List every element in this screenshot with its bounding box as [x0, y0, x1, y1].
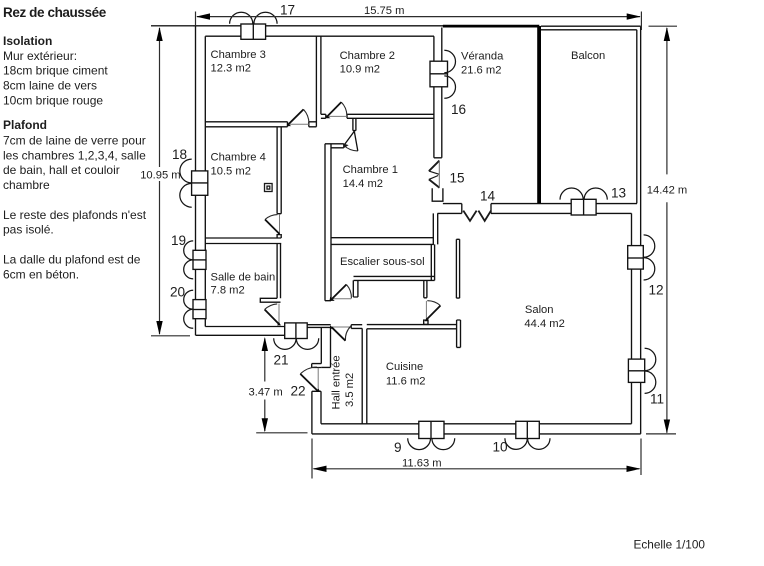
svg-text:Rez de chaussée: Rez de chaussée — [3, 5, 107, 20]
dimension lines — [151, 12, 677, 479]
column symbol in chambre 4 — [265, 184, 273, 192]
window 12 box — [628, 246, 644, 270]
door chambre 2 leaf — [327, 102, 341, 116]
interior doors : hinge markers — [277, 115, 428, 392]
dim 14.42m tick bottom — [646, 433, 676, 435]
wall escalier door right jamb stub — [353, 280, 358, 297]
wire left exterior wall inner line (gaps at windows 18,19,20) — [204, 36, 206, 326]
wall salon free stub — [456, 239, 459, 298]
wire bottom exterior wall inner line (gaps at windows 9,10) — [321, 423, 632, 425]
door hall arc — [345, 326, 351, 341]
dim 3.47m line — [264, 339, 266, 432]
svg-text:12.3 m2: 12.3 m2 — [211, 62, 251, 74]
door cuisine arc — [427, 301, 440, 306]
door chambre 2 arc — [341, 102, 347, 115]
svg-text:Salle de bain: Salle de bain — [211, 272, 276, 284]
wire balcon top thin double line — [541, 26, 641, 30]
svg-text:Cuisine: Cuisine — [386, 361, 423, 373]
window 21 arcs — [274, 338, 319, 349]
svg-text:10cm brique rouge: 10cm brique rouge — [3, 93, 103, 107]
wire right exterior wall inner line (gaps at windows 12,11) — [631, 213, 633, 423]
svg-text:La dalle du plafond est de: La dalle du plafond est de — [3, 252, 141, 266]
svg-text:7.8 m2: 7.8 m2 — [211, 285, 245, 297]
svg-text:19: 19 — [171, 233, 186, 248]
wall corridor-salon stub below salon top wall — [433, 213, 437, 244]
svg-text:13: 13 — [611, 186, 626, 201]
wire thin wall right of window 21 — [307, 325, 331, 328]
svg-text:18: 18 — [172, 147, 187, 162]
door chambre 1 nook arc — [344, 145, 358, 151]
window 17 arcs — [230, 12, 278, 24]
svg-text:11.6 m2: 11.6 m2 — [386, 376, 426, 388]
window 13 arcs — [560, 188, 607, 200]
interior doors : thin closed-position chords — [279, 116, 426, 391]
wire balcon right inner thin line — [636, 30, 638, 204]
window 11 arcs — [645, 348, 656, 393]
door hall leaf — [332, 327, 346, 341]
left margin text block — [3, 5, 147, 281]
wire salon top exterior wall inner line (gaps at door 14, window 13) — [438, 212, 632, 214]
svg-text:21: 21 — [274, 353, 289, 368]
svg-text:Balcon: Balcon — [571, 50, 605, 62]
wire top exterior wall outer line — [151, 25, 443, 27]
window 18 arcs — [180, 159, 192, 207]
window 19 box — [193, 250, 206, 269]
svg-text:44.4 m2: 44.4 m2 — [524, 318, 564, 330]
dim 10.95m tick bottom — [151, 335, 190, 337]
wall window 15 sill box — [432, 188, 443, 201]
door chambre 3 arc — [304, 109, 310, 123]
svg-text:21.6 m2: 21.6 m2 — [461, 64, 501, 76]
wire left exterior wall outer line (gaps at windows 18,19,20) — [195, 26, 197, 336]
window 9 arcs — [408, 438, 455, 449]
wall salle-de-bain niche — [260, 298, 280, 302]
window 13 box — [571, 199, 596, 215]
interior doors : leaves — [265, 102, 441, 391]
door 22 arc — [300, 367, 317, 374]
wall cuisine-salon stub — [457, 320, 461, 347]
svg-text:Salon: Salon — [525, 304, 554, 316]
dim 10.95m line — [159, 28, 161, 334]
wall salle-de-bain right wall — [277, 244, 280, 299]
wire door 14 jamb caps — [462, 204, 491, 214]
wall partition chambre4 / salle-de-bain — [205, 238, 281, 244]
door chambre1 nook arrow mark — [344, 144, 349, 148]
dim 15.75m right extension — [640, 12, 642, 31]
svg-text:9: 9 — [394, 440, 402, 455]
window 20 arcs — [184, 290, 194, 328]
svg-text:Véranda: Véranda — [461, 51, 504, 63]
wall door-22 top ledge — [312, 364, 322, 368]
svg-text:Mur extérieur:: Mur extérieur: — [3, 49, 77, 63]
svg-text:18cm brique ciment: 18cm brique ciment — [3, 64, 108, 78]
wire top exterior wall inner line (gaps at window 17) — [205, 35, 434, 37]
svg-text:22: 22 — [291, 384, 306, 399]
svg-text:Chambre 2: Chambre 2 — [340, 50, 395, 62]
windows group — [192, 24, 645, 439]
door escalier arc — [346, 285, 351, 299]
window 18 box — [192, 171, 208, 195]
window 9 box — [419, 421, 444, 438]
wire bottom exterior wall outer line (gaps at windows 9,10) — [312, 433, 641, 435]
window 10 box — [516, 421, 540, 438]
dimension arrowheads — [156, 13, 670, 472]
window 19 arcs — [184, 241, 194, 279]
window 16 box — [430, 61, 448, 87]
veranda top thick wall — [443, 25, 539, 28]
dim 11.63m left extension — [311, 439, 313, 479]
svg-text:Chambre 1: Chambre 1 — [343, 164, 398, 176]
wall partition chambre3 / chambre2 — [316, 36, 321, 127]
svg-text:17: 17 — [280, 3, 295, 18]
window 17 box — [241, 24, 266, 39]
door chambre 4 leaf — [265, 220, 279, 234]
wire hall left exterior wall — [312, 391, 321, 434]
svg-text:les chambres 1,2,3,4, salle: les chambres 1,2,3,4, salle — [3, 148, 146, 162]
wall cuisine door hinge box — [424, 320, 428, 324]
wall hall-cuisine divider — [362, 328, 367, 423]
svg-text:10.9 m2: 10.9 m2 — [340, 64, 380, 76]
svg-text:11: 11 — [650, 392, 664, 407]
dimension texts — [140, 5, 705, 551]
window/door number labels — [170, 3, 664, 456]
svg-text:6cm en béton.: 6cm en béton. — [3, 267, 79, 281]
svg-text:Chambre 3: Chambre 3 — [211, 49, 266, 61]
dim 3.47m tick bottom — [256, 432, 307, 434]
svg-text:3.5 m2: 3.5 m2 — [344, 373, 356, 407]
svg-text:Le reste des plafonds n'est: Le reste des plafonds n'est — [3, 208, 147, 222]
wall cuisine top — [367, 325, 457, 329]
wall escalier bottom — [354, 276, 435, 280]
door 22 leaf — [300, 374, 318, 392]
wire salle-de-bain bottom exterior wall outer line — [196, 334, 285, 336]
svg-text:20: 20 — [170, 285, 186, 300]
door chambre 1 nook leaves — [344, 131, 358, 151]
room labels — [211, 49, 606, 410]
wall chambre1 / escalier left wall — [325, 144, 331, 301]
svg-text:Echelle 1/100: Echelle 1/100 — [634, 538, 706, 552]
wall chambre1 nook door stub — [353, 118, 356, 130]
svg-text:16: 16 — [451, 102, 466, 117]
wall chambre4 right wall with door opening — [277, 127, 281, 238]
svg-text:14.4 m2: 14.4 m2 — [343, 178, 383, 190]
svg-text:Isolation: Isolation — [3, 34, 52, 48]
dim 15.75m line — [197, 16, 640, 18]
door 14 double-leaf triangles — [463, 211, 491, 221]
wall veranda left / chambre1 right thick wall (gap at window 16) — [434, 28, 442, 158]
door escalier leaf — [332, 285, 346, 299]
window 12 arcs — [644, 235, 655, 280]
wall chambre2 bottom partition with door gap — [321, 114, 434, 118]
dim 15.75m left extension — [195, 12, 197, 26]
wall chambre1 top stub — [325, 144, 344, 148]
wire salle-de-bain bottom exterior wall inner line — [205, 326, 284, 328]
svg-text:12: 12 — [649, 283, 664, 298]
svg-text:Chambre 4: Chambre 4 — [211, 152, 266, 164]
window 20 box — [193, 300, 206, 319]
window 10 arcs — [505, 438, 550, 449]
svg-text:15: 15 — [450, 171, 465, 186]
door chambre 4 arc — [265, 215, 278, 220]
interior doors : swing arcs — [265, 102, 441, 374]
dim 14.42m line — [666, 28, 668, 433]
svg-text:14.42 m: 14.42 m — [647, 185, 687, 197]
svg-text:7cm de laine de verre pour: 7cm de laine de verre pour — [3, 133, 146, 147]
svg-text:pas isolé.: pas isolé. — [3, 223, 54, 237]
svg-text:8cm laine de vers: 8cm laine de vers — [3, 79, 97, 93]
svg-text:10: 10 — [493, 440, 509, 455]
svg-text:3.47 m: 3.47 m — [249, 387, 283, 399]
svg-text:Hall entrée: Hall entrée — [331, 355, 343, 409]
svg-text:de bain, hall et couloir: de bain, hall et couloir — [3, 163, 120, 177]
dim 11.63m right extension — [640, 439, 642, 476]
window swing arcs — [180, 12, 656, 449]
door chambre 3 leaf — [288, 109, 303, 124]
window 16 arcs — [444, 50, 455, 98]
door 15 double-leaf triangles — [429, 161, 440, 188]
wall chambre3 bottom partition — [205, 122, 316, 127]
door salle de bain leaf — [265, 310, 279, 324]
wire salon top exterior wall outer line (gaps at door 14, window 13) — [443, 203, 637, 205]
window 11 box — [628, 359, 644, 382]
dim 10.95m tick top — [151, 25, 193, 27]
dim 14.42m tick top — [649, 25, 678, 27]
dim 11.63m line — [314, 468, 640, 470]
wire right exterior wall outer line (gaps at windows 12,11) — [640, 26, 642, 434]
svg-text:Escalier sous-sol: Escalier sous-sol — [340, 256, 425, 268]
veranda-balcon thick divider wall — [537, 26, 541, 203]
svg-text:15.75 m: 15.75 m — [364, 5, 404, 17]
wall stub below escalier bottom wall — [424, 280, 427, 297]
svg-text:14: 14 — [480, 189, 496, 204]
svg-text:10.95 m: 10.95 m — [140, 170, 180, 182]
svg-text:chambre: chambre — [3, 178, 50, 192]
svg-text:11.63 m: 11.63 m — [402, 458, 442, 470]
door cuisine leaf — [427, 306, 441, 320]
wall chambre1 bottom / escalier top — [331, 238, 434, 245]
svg-text:Plafond: Plafond — [3, 118, 47, 132]
svg-text:10.5 m2: 10.5 m2 — [211, 166, 251, 178]
wall hall top right jamb — [351, 325, 362, 329]
window 21 box — [285, 323, 308, 339]
wall escalier right — [431, 244, 434, 280]
door salle de bain arc — [265, 304, 278, 310]
wall thick stub left of hall door — [321, 327, 330, 367]
